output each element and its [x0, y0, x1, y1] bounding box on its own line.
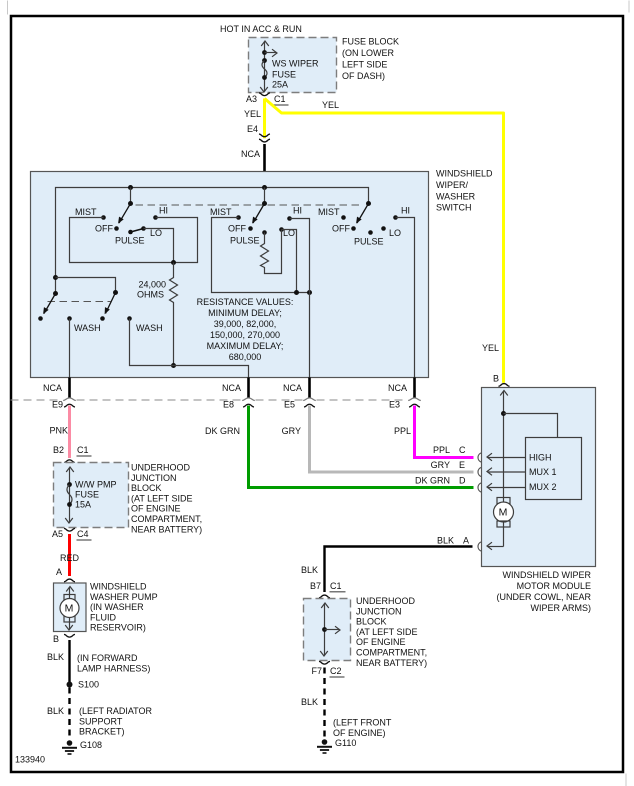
svg-text:YEL: YEL — [244, 109, 261, 119]
svg-text:(UNDER COWL, NEAR: (UNDER COWL, NEAR — [496, 592, 591, 602]
svg-text:LO: LO — [150, 228, 162, 238]
svg-text:(AT LEFT SIDE: (AT LEFT SIDE — [356, 627, 418, 637]
svg-text:COMPARTMENT,: COMPARTMENT, — [356, 648, 427, 658]
svg-text:G108: G108 — [80, 740, 102, 750]
windshield wiper motor module U1 — [482, 388, 596, 567]
wire g2 HI to E5 — [290, 219, 310, 378]
svg-text:WASHER: WASHER — [436, 191, 476, 201]
wire PNK E9 to B2 — [68, 406, 71, 459]
wire NCA switch to E9 — [68, 378, 71, 399]
svg-text:BLK: BLK — [301, 697, 318, 707]
svg-text:NEAR BATTERY): NEAR BATTERY) — [356, 658, 427, 668]
svg-text:W/W PMP: W/W PMP — [75, 480, 117, 490]
svg-text:B7: B7 — [310, 581, 321, 591]
connector boundary dashed — [11, 399, 408, 401]
fuse W/W PMP 15A — [69, 468, 71, 523]
svg-text:NCA: NCA — [43, 383, 62, 393]
svg-text:WS WIPER: WS WIPER — [272, 59, 319, 69]
svg-text:GRY: GRY — [282, 426, 301, 436]
svg-text:GRY: GRY — [431, 460, 450, 470]
wire PPL E3 to module C — [415, 406, 474, 458]
svg-text:MUX 1: MUX 1 — [529, 467, 557, 477]
svg-text:OF ENGINE: OF ENGINE — [356, 637, 406, 647]
resistance values note — [197, 297, 294, 362]
windshield wiper/washer switch S1 — [31, 172, 429, 378]
resistor delay g2 — [261, 230, 282, 274]
svg-text:M: M — [499, 507, 508, 519]
svg-text:PNK: PNK — [49, 426, 68, 436]
svg-text:NCA: NCA — [388, 383, 407, 393]
svg-text:OF ENGINE): OF ENGINE) — [333, 728, 386, 738]
svg-text:HIGH: HIGH — [529, 453, 552, 463]
svg-text:E8: E8 — [223, 400, 234, 410]
svg-text:(LEFT FRONT: (LEFT FRONT — [333, 718, 392, 728]
wire g2 frame — [212, 218, 310, 293]
svg-text:WASH: WASH — [74, 323, 101, 333]
svg-text:WINDSHIELD: WINDSHIELD — [436, 169, 493, 179]
svg-text:C1: C1 — [330, 581, 342, 591]
svg-text:MIST: MIST — [75, 207, 97, 217]
underhood junction block (right) — [304, 599, 351, 661]
wire YEL from fuse A3 to E4 — [263, 99, 266, 139]
svg-text:OHMS: OHMS — [137, 290, 164, 300]
wire RED A5 to pump A — [68, 534, 71, 576]
wire BLK pump to S100 — [68, 640, 70, 682]
svg-text:BLOCK: BLOCK — [356, 617, 387, 627]
svg-text:RESISTANCE VALUES:: RESISTANCE VALUES: — [197, 297, 294, 307]
svg-text:SUPPORT: SUPPORT — [79, 716, 123, 726]
svg-text:G110: G110 — [335, 738, 356, 748]
wire HIGH to pin C — [488, 457, 526, 459]
svg-text:25A: 25A — [272, 80, 288, 90]
svg-text:BLK: BLK — [47, 652, 64, 662]
switch group 2 pivot — [264, 188, 266, 204]
svg-text:C1: C1 — [274, 94, 286, 104]
svg-text:680,000: 680,000 — [229, 352, 262, 362]
svg-text:OFF: OFF — [228, 224, 246, 234]
svg-text:COMPARTMENT,: COMPARTMENT, — [131, 514, 202, 524]
module caption — [496, 570, 591, 613]
svg-text:A: A — [56, 567, 62, 577]
wire motor to pin A — [488, 546, 504, 548]
wire GRY E5 to module E — [310, 406, 474, 473]
wire DK GRN E8 to module D — [249, 406, 474, 488]
windshield washer pump P1 — [54, 583, 87, 632]
svg-text:133940: 133940 — [15, 755, 45, 765]
connector E5 — [303, 398, 316, 401]
splice S100 — [67, 682, 73, 688]
svg-text:WINDSHIELD: WINDSHIELD — [90, 582, 147, 592]
svg-text:LO: LO — [389, 228, 401, 238]
svg-text:E5: E5 — [284, 400, 295, 410]
svg-text:OF DASH): OF DASH) — [342, 71, 385, 81]
wire internal feed bus — [56, 188, 369, 294]
switch group 3 pivot — [366, 201, 371, 206]
svg-text:WASHER PUMP: WASHER PUMP — [90, 592, 158, 602]
svg-text:D: D — [459, 476, 466, 486]
ground G110 — [317, 739, 332, 753]
wire g3 HI to E3 — [396, 218, 415, 378]
wire NCA switch to E3 — [413, 378, 416, 399]
svg-text:WIPER/: WIPER/ — [436, 180, 469, 190]
svg-text:C4: C4 — [77, 529, 89, 539]
svg-text:FUSE: FUSE — [272, 70, 296, 80]
svg-text:JUNCTION: JUNCTION — [356, 606, 402, 616]
svg-text:39,000, 82,000,: 39,000, 82,000, — [214, 319, 277, 329]
svg-text:MIST: MIST — [318, 207, 340, 217]
svg-text:E9: E9 — [52, 400, 63, 410]
svg-text:E4: E4 — [247, 124, 258, 134]
motor M in module — [497, 498, 510, 504]
svg-text:NCA: NCA — [283, 383, 302, 393]
wire BLK F7 to G110 — [323, 668, 325, 738]
wire BLK S100 to G108 — [68, 688, 70, 739]
svg-text:B2: B2 — [53, 445, 64, 455]
svg-text:MIST: MIST — [210, 207, 232, 217]
svg-text:WINDSHIELD WIPER: WINDSHIELD WIPER — [502, 570, 591, 580]
svg-text:E3: E3 — [389, 400, 400, 410]
svg-text:NCA: NCA — [222, 383, 241, 393]
svg-text:FUSE BLOCK: FUSE BLOCK — [342, 37, 399, 47]
svg-text:MUX 2: MUX 2 — [529, 482, 557, 492]
svg-text:FUSE: FUSE — [75, 490, 99, 500]
node junction g2 feed — [262, 185, 267, 190]
wire module main feed — [503, 391, 505, 547]
svg-text:LAMP HARNESS): LAMP HARNESS) — [77, 663, 150, 673]
svg-text:A5: A5 — [52, 529, 63, 539]
switch group 1 blade — [119, 204, 131, 224]
svg-text:BLOCK: BLOCK — [131, 483, 162, 493]
svg-text:C2: C2 — [330, 666, 342, 676]
switch group 2 blade — [253, 204, 265, 224]
svg-text:OFF: OFF — [332, 224, 350, 234]
svg-text:HOT IN ACC & RUN: HOT IN ACC & RUN — [220, 24, 302, 34]
wire g1 LO to resistor — [144, 229, 174, 263]
svg-text:WASH: WASH — [136, 323, 163, 333]
svg-text:LEFT SIDE: LEFT SIDE — [342, 60, 387, 70]
fuse block (on lower left side of dash) — [249, 38, 337, 93]
svg-text:A: A — [463, 536, 469, 546]
wire MUX1 to pin E — [488, 471, 526, 473]
module logic box — [526, 438, 582, 500]
svg-text:SWITCH: SWITCH — [436, 203, 472, 213]
svg-text:YEL: YEL — [322, 100, 339, 110]
switch group 3 blade — [357, 204, 369, 224]
node junction g1 feed — [128, 185, 133, 190]
svg-text:M: M — [65, 603, 74, 615]
svg-text:S100: S100 — [78, 680, 99, 690]
svg-text:MOTOR MODULE: MOTOR MODULE — [517, 581, 591, 591]
svg-text:B: B — [493, 374, 499, 384]
svg-text:DK GRN: DK GRN — [205, 426, 240, 436]
svg-text:BLK: BLK — [437, 536, 454, 546]
svg-text:HI: HI — [159, 206, 168, 216]
svg-text:(ON LOWER: (ON LOWER — [342, 48, 395, 58]
mechanical link dashed wash — [48, 301, 111, 303]
svg-text:PPL: PPL — [394, 426, 411, 436]
svg-text:PULSE: PULSE — [230, 236, 260, 246]
svg-text:RED: RED — [60, 553, 80, 563]
connector E9 — [63, 398, 76, 401]
svg-text:RESERVOIR): RESERVOIR) — [90, 623, 146, 633]
wire YEL from fuse A3 to wiper motor module B — [265, 99, 504, 383]
wash blade left — [44, 294, 56, 314]
svg-text:OFF: OFF — [95, 224, 113, 234]
svg-text:OF ENGINE: OF ENGINE — [131, 504, 181, 514]
svg-text:NCA: NCA — [241, 149, 260, 159]
svg-text:HI: HI — [293, 206, 302, 216]
wire WASH to E9 — [69, 319, 71, 378]
svg-text:JUNCTION: JUNCTION — [131, 473, 177, 483]
svg-text:C1: C1 — [77, 445, 89, 455]
ground G108 — [62, 740, 77, 754]
svg-text:(IN WASHER: (IN WASHER — [90, 602, 144, 612]
fuse WS WIPER 25A — [264, 42, 266, 92]
wash switch pivots — [53, 275, 58, 280]
connector E3 — [408, 398, 421, 401]
wire g1 frame — [70, 218, 198, 263]
svg-text:PULSE: PULSE — [115, 236, 145, 246]
switch group 1 pivot — [130, 188, 132, 204]
svg-text:C: C — [459, 445, 466, 455]
connector E8 — [242, 398, 255, 401]
svg-text:DK GRN: DK GRN — [415, 476, 450, 486]
wash contacts — [38, 316, 43, 321]
junction bus in block — [324, 604, 326, 656]
svg-text:15A: 15A — [75, 500, 91, 510]
wire NCA switch to E5 — [308, 378, 311, 399]
connector arcs C E D on module edge — [478, 453, 482, 462]
wash blade right — [106, 293, 116, 314]
svg-text:24,000: 24,000 — [138, 280, 166, 290]
svg-text:YEL: YEL — [482, 343, 499, 353]
underhood junction block (left) — [54, 463, 129, 528]
svg-text:NEAR BATTERY): NEAR BATTERY) — [131, 524, 202, 534]
svg-text:UNDERHOOD: UNDERHOOD — [131, 463, 191, 473]
svg-text:A3: A3 — [246, 94, 257, 104]
wire NCA switch to E8 — [247, 378, 250, 399]
svg-text:WIPER ARMS): WIPER ARMS) — [530, 603, 591, 613]
svg-text:FLUID: FLUID — [90, 612, 117, 622]
svg-text:B: B — [53, 634, 59, 644]
page frame artifacts — [7, 1, 9, 15]
svg-text:PPL: PPL — [433, 445, 450, 455]
svg-text:F7: F7 — [311, 666, 322, 676]
mechanical link dashed — [136, 204, 362, 206]
svg-text:BLK: BLK — [301, 565, 318, 575]
wire BLK module A to B7 — [325, 547, 473, 593]
wire NCA from E4 to switch — [263, 144, 266, 188]
svg-text:(IN FORWARD: (IN FORWARD — [77, 653, 138, 663]
svg-text:(LEFT RADIATOR: (LEFT RADIATOR — [79, 706, 153, 716]
svg-text:MINIMUM DELAY;: MINIMUM DELAY; — [208, 308, 282, 318]
svg-text:150,000, 270,000: 150,000, 270,000 — [210, 330, 280, 340]
svg-text:BLK: BLK — [47, 706, 64, 716]
wire WASH to E8 — [130, 319, 249, 378]
svg-text:E: E — [459, 460, 465, 470]
svg-text:PULSE: PULSE — [354, 237, 384, 247]
wire MUX2 to pin D — [488, 487, 526, 489]
svg-text:(AT LEFT SIDE: (AT LEFT SIDE — [131, 493, 193, 503]
svg-text:MAXIMUM DELAY;: MAXIMUM DELAY; — [207, 341, 284, 351]
svg-text:HI: HI — [401, 206, 410, 216]
svg-text:UNDERHOOD: UNDERHOOD — [356, 596, 416, 606]
svg-text:BRACKET): BRACKET) — [79, 727, 125, 737]
